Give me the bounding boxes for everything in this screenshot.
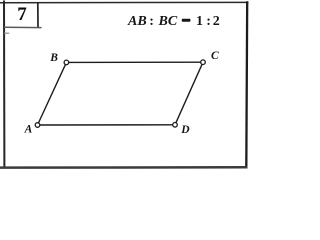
frame left border bbox=[3, 1, 5, 168]
vertex C bbox=[201, 60, 206, 65]
side BC bbox=[66, 61, 203, 63]
problem number box right edge bbox=[37, 2, 39, 28]
side CD bbox=[175, 62, 203, 125]
vertex D bbox=[173, 123, 178, 128]
svg-text:B: B bbox=[49, 52, 58, 64]
tick on left border bbox=[4, 32, 9, 34]
svg-text:1: 1 bbox=[196, 14, 203, 29]
svg-text::: : bbox=[206, 14, 211, 29]
svg-text:D: D bbox=[180, 124, 190, 136]
svg-text::: : bbox=[149, 14, 154, 29]
frame bottom border bbox=[0, 166, 248, 169]
vertex B bbox=[64, 60, 69, 65]
svg-text:BC: BC bbox=[158, 14, 178, 29]
vertex A bbox=[35, 123, 40, 128]
condition equals dash bbox=[182, 19, 191, 22]
svg-text:2: 2 bbox=[213, 14, 220, 29]
svg-text:A: A bbox=[24, 124, 33, 136]
side DA bbox=[38, 124, 176, 126]
svg-text:AB: AB bbox=[127, 14, 147, 29]
svg-text:7: 7 bbox=[17, 4, 27, 25]
svg-text:C: C bbox=[211, 50, 219, 62]
side AB bbox=[38, 62, 67, 125]
frame top border bbox=[0, 1, 249, 3]
frame right border bbox=[245, 1, 248, 168]
problem number box bottom edge bbox=[4, 26, 42, 28]
